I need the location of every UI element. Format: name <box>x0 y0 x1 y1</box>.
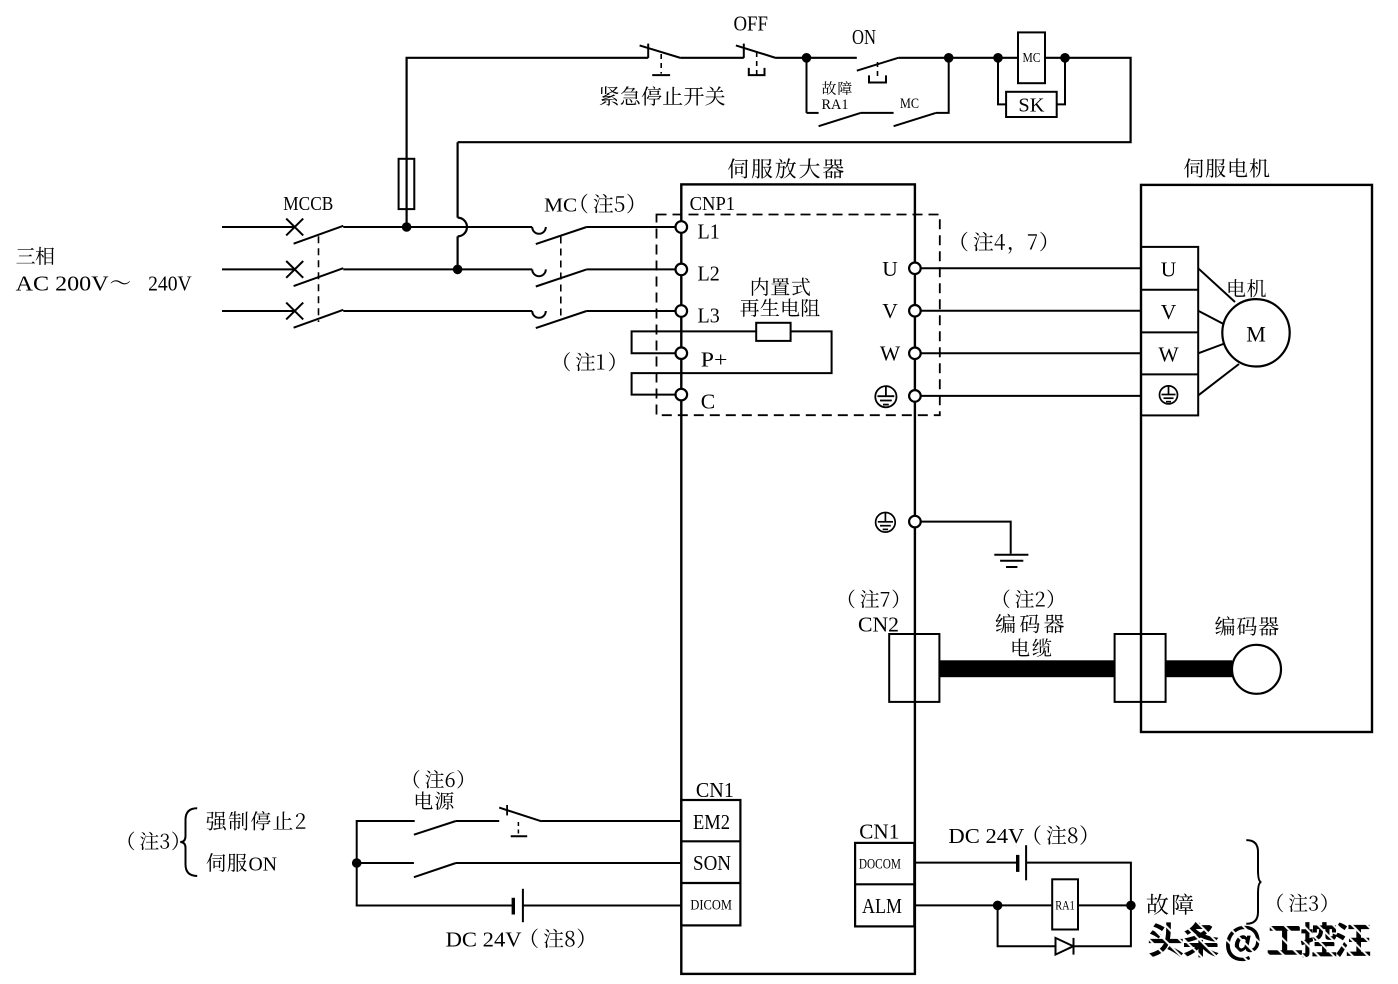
label: 电缆 <box>1013 638 1052 657</box>
switch: forced-stop tick <box>506 805 508 815</box>
wire: DOCOM to right riser <box>1026 863 1131 906</box>
motor terminal block <box>1141 247 1198 416</box>
node A: junction before ON switch <box>802 53 812 63</box>
wire: U phase to motor <box>921 267 1141 269</box>
resistor: built-in regenerative resistor <box>756 323 790 341</box>
connector: encoder side <box>1115 634 1166 702</box>
wire: diode branch to right node <box>1074 905 1131 946</box>
svg-text:W: W <box>1158 342 1179 366</box>
watermark: 头条 @工控汪 <box>1148 922 1370 961</box>
wire: phase 3 to MC contact <box>343 310 532 312</box>
wire: EM2 to CN1 <box>542 820 682 822</box>
breaker MCCB mechanical link (dashed) <box>318 236 320 322</box>
wire: phase 2 input <box>222 268 294 270</box>
wire: phase 1 input <box>222 226 294 228</box>
wire: EM2 line left riser <box>357 821 514 906</box>
svg-text:MCCB: MCCB <box>283 193 333 215</box>
CN1 left dividers <box>681 840 740 842</box>
label: 再生电阻 <box>740 298 819 316</box>
svg-text:P+: P+ <box>701 348 728 372</box>
switch: OFF pushbutton (NC) blade <box>736 45 776 58</box>
cable: encoder pigtail (thick) <box>1166 660 1233 677</box>
wire: motor lead PE <box>1198 364 1239 395</box>
svg-text:U: U <box>882 257 898 281</box>
label: 伺服电机 <box>1184 158 1269 177</box>
label: 三相 <box>16 247 54 265</box>
encoder circle <box>1232 645 1281 694</box>
wire: EM2 middle segment <box>456 820 499 822</box>
terminal PE (amplifier) circle <box>909 390 921 402</box>
CN1 right divider <box>855 883 914 885</box>
contactor MC main contact 1 blade <box>536 227 587 244</box>
switch: OFF fixed-contact tick <box>743 44 745 58</box>
breaker MCCB pole 1 X mark <box>286 219 303 236</box>
svg-text:RA1: RA1 <box>822 97 849 113</box>
battery: DC24V (input side) long plate <box>522 889 524 922</box>
terminal block CN1 right <box>855 843 914 927</box>
wire: PE to motor <box>921 395 1141 397</box>
terminal W (amplifier) circle <box>909 348 921 360</box>
label: （注2） <box>1004 590 1053 609</box>
svg-text:CNP1: CNP1 <box>690 193 736 215</box>
wire: SK branch left drop <box>998 58 1006 105</box>
wire: top control line left segment + drop to fuse <box>407 58 649 227</box>
terminal L3 circle <box>676 305 688 317</box>
switch: contactor aux contact MC (NO) blade <box>894 113 936 126</box>
connector CN2 on amplifier <box>889 634 939 702</box>
node: junction L1/fuse <box>402 222 412 232</box>
svg-text:SON: SON <box>693 851 731 875</box>
contactor MC main contact 1 arc <box>532 227 546 234</box>
switch: ON pushbutton bracket <box>869 75 886 82</box>
terminal PE2 circle on amplifier right edge <box>909 516 921 528</box>
motor terminal dividers <box>1141 289 1198 291</box>
wire: motor lead U <box>1198 268 1235 302</box>
fuse F1 on L1 control tap <box>399 159 415 209</box>
wire: V phase to motor <box>921 310 1141 312</box>
switch: ON pushbutton (NO) blade <box>857 58 899 71</box>
label: 故障 <box>1147 894 1193 915</box>
symbol: protective earth (circled) at amplifier <box>875 386 896 407</box>
switch: emergency stop manual T-bar <box>652 74 670 76</box>
wire: node A to ON switch <box>807 57 857 59</box>
switch: forced-stop dashed stem <box>517 822 519 834</box>
label: （注7） <box>849 590 898 609</box>
label: （注3） left <box>129 832 178 851</box>
svg-text:CN1: CN1 <box>859 820 899 844</box>
cable: encoder cable (thick) <box>939 660 1114 677</box>
svg-text:ON: ON <box>249 854 278 875</box>
node D: junction MC coil / SK branch right <box>1060 53 1070 63</box>
svg-text:DC 24V: DC 24V <box>948 824 1024 848</box>
switch: power (NO) blade on EM2 line <box>414 821 456 835</box>
switch: forced-stop T-bar <box>511 835 528 837</box>
svg-text:MC: MC <box>1023 50 1041 65</box>
terminal V (amplifier) circle <box>909 305 921 317</box>
terminal U (amplifier) circle <box>909 263 921 275</box>
label: 故障 (RA1) <box>822 81 852 95</box>
switch: forced-stop (NC) blade <box>499 808 541 822</box>
label: 紧急停止开关 <box>600 86 725 105</box>
switch: emergency stop actuator dashed stem <box>660 54 662 74</box>
wire: between E-stop and OFF <box>681 57 744 59</box>
node: ALM junction right <box>1126 901 1136 911</box>
wire: motor lead W <box>1198 344 1224 354</box>
wire: W phase to motor <box>921 352 1141 354</box>
node: junction control return / L2 <box>453 265 463 275</box>
wire: ALM line <box>914 904 1052 906</box>
svg-text:C: C <box>701 390 715 414</box>
contactor MC main contact 2 arc <box>532 269 546 276</box>
wire: node C to MC coil box <box>998 57 1018 59</box>
svg-text:ON: ON <box>852 25 876 49</box>
terminal P+ circle <box>676 347 688 359</box>
svg-text:V: V <box>882 299 898 323</box>
svg-text:L3: L3 <box>698 304 720 328</box>
wire: freewheel diode branch <box>998 905 1056 946</box>
wire: phase 1 to MC contact <box>343 226 532 228</box>
battery: DC24V (input side) short plate <box>512 898 515 915</box>
svg-text:AC 200V: AC 200V <box>16 272 110 296</box>
terminal L2 circle <box>676 264 688 276</box>
wire: holding branch right stub + riser <box>936 58 949 113</box>
svg-text:DOCOM: DOCOM <box>859 857 901 873</box>
node B: junction after ON switch <box>944 53 954 63</box>
symbol: protective earth (circled) motor terminal <box>1160 386 1178 404</box>
svg-text:RA1: RA1 <box>1055 899 1075 913</box>
wire: holding branch middle segment <box>861 112 894 114</box>
wire: DOCOM line <box>914 862 1017 864</box>
switch: ON actuator dashed stem <box>877 62 879 80</box>
switch: relay contact RA1 (NO) blade <box>819 113 861 126</box>
switch: emergency stop (NC) blade <box>640 45 681 58</box>
wire: MC contact 2 to CNP1 <box>587 268 677 270</box>
wire: SON to CN1 <box>456 862 681 864</box>
label: （注6） <box>414 770 463 789</box>
servo motor box outline <box>1141 185 1372 732</box>
svg-text:V: V <box>1161 300 1177 324</box>
wire: RA1/MC holding branch - left riser <box>806 58 808 113</box>
contactor MC main contact 3 blade <box>536 311 587 328</box>
wire: ON switch to node B <box>898 57 948 59</box>
switch: emergency stop fixed-contact tick <box>647 44 649 58</box>
wire: node B to node C <box>949 57 998 59</box>
switch: OFF pushbutton bracket <box>749 68 765 75</box>
label: （注1） <box>564 352 615 371</box>
label: 电机 <box>1229 279 1266 297</box>
contactor MC mechanical link (dashed) <box>560 237 562 319</box>
wire: PE2 to earth ground <box>921 522 1011 554</box>
svg-text:SK: SK <box>1018 95 1045 117</box>
motor M circle <box>1222 299 1289 366</box>
wire: MC contact 1 to CNP1 <box>587 226 677 228</box>
wire: motor lead V <box>1198 311 1224 325</box>
battery: DC24V (output side) long plate <box>1025 845 1027 880</box>
wire: P+ stub to regen loop <box>632 331 757 353</box>
wire: node D to right edge, down, and return line to L2 tap <box>458 58 1131 142</box>
terminal L1 circle <box>676 221 688 233</box>
svg-text:CN2: CN2 <box>858 613 899 637</box>
wire: phase 2 to MC contact <box>343 268 532 270</box>
diode: freewheel <box>1056 938 1074 955</box>
switch: OFF actuator dashed stem <box>756 52 758 75</box>
label: 编码器 (cable) <box>996 614 1064 634</box>
svg-text:MC: MC <box>544 195 577 217</box>
svg-text:U: U <box>1161 257 1177 281</box>
symbol: protective earth (circled) mid <box>876 513 896 533</box>
label: 编码器 (encoder) <box>1215 616 1278 636</box>
wire: hop to L2 junction <box>457 236 459 269</box>
terminal block CN1 left <box>681 800 740 925</box>
svg-text:L2: L2 <box>698 261 720 285</box>
svg-text:MC: MC <box>900 96 919 112</box>
wire: SK branch right drop <box>1057 58 1065 105</box>
svg-text:DICOM: DICOM <box>690 898 732 914</box>
contactor MC main contact 2 blade <box>536 269 587 286</box>
wire: MC contact 3 to CNP1 <box>587 310 677 312</box>
wire: SON line left segment <box>357 862 414 864</box>
label: （注3） right <box>1277 894 1326 913</box>
surge absorber SK box <box>1006 92 1057 117</box>
node: ALM junction left <box>993 901 1003 911</box>
coil: contactor MC <box>1018 32 1045 83</box>
label: 内置式 <box>752 278 810 296</box>
breaker MCCB pole 3 X mark <box>286 303 303 320</box>
dashed box: CNP1 terminal group <box>657 215 940 416</box>
wire: regen loop right side <box>632 331 832 394</box>
symbol: earth ground <box>994 555 1028 567</box>
wire: RA1 to right node <box>1078 904 1131 906</box>
label: 电源 <box>416 791 454 809</box>
wire: OFF to node A <box>776 57 807 59</box>
wire: control return drop toward L2 with hop over L1 <box>457 142 459 217</box>
wire: DICOM to CN1 <box>523 905 681 907</box>
wire hop: semicircle over L1 phase wire <box>458 218 467 237</box>
label: 伺服ON <box>207 853 247 872</box>
svg-text:240V: 240V <box>148 272 192 296</box>
brace: right curly brace <box>1246 840 1261 924</box>
node C: junction MC coil / SK branch left <box>993 53 1003 63</box>
breaker MCCB pole 1 blade <box>294 226 344 244</box>
label: （注4，7） <box>961 232 1046 254</box>
wire: holding branch bottom left stub <box>807 112 819 114</box>
brace: left curly brace <box>180 808 197 876</box>
battery: DC24V (output side) short plate <box>1016 855 1019 872</box>
svg-text:OFF: OFF <box>733 11 768 35</box>
breaker MCCB pole 3 blade <box>294 310 344 328</box>
wire: MC coil to node D <box>1045 57 1065 59</box>
terminal C circle <box>676 389 688 401</box>
contactor MC main contact 3 arc <box>532 311 546 318</box>
svg-text:CN1: CN1 <box>696 778 734 802</box>
wire: phase 3 input <box>222 310 294 312</box>
servo amplifier box outline <box>681 184 915 974</box>
label: 强制停止2 <box>206 811 305 830</box>
svg-text:EM2: EM2 <box>693 810 730 834</box>
switch: servo-ON (NO) blade <box>414 863 456 877</box>
breaker MCCB pole 2 blade <box>294 268 344 286</box>
svg-text:ALM: ALM <box>862 894 902 918</box>
breaker MCCB pole 2 X mark <box>286 261 303 278</box>
relay coil RA1 box <box>1052 879 1078 929</box>
node: SON branch junction <box>352 858 362 868</box>
label: 伺服放大器 <box>728 158 844 178</box>
svg-text:L1: L1 <box>698 219 720 243</box>
svg-text:M: M <box>1246 322 1266 347</box>
svg-text:W: W <box>880 342 901 366</box>
svg-text:DC 24V: DC 24V <box>446 927 522 951</box>
